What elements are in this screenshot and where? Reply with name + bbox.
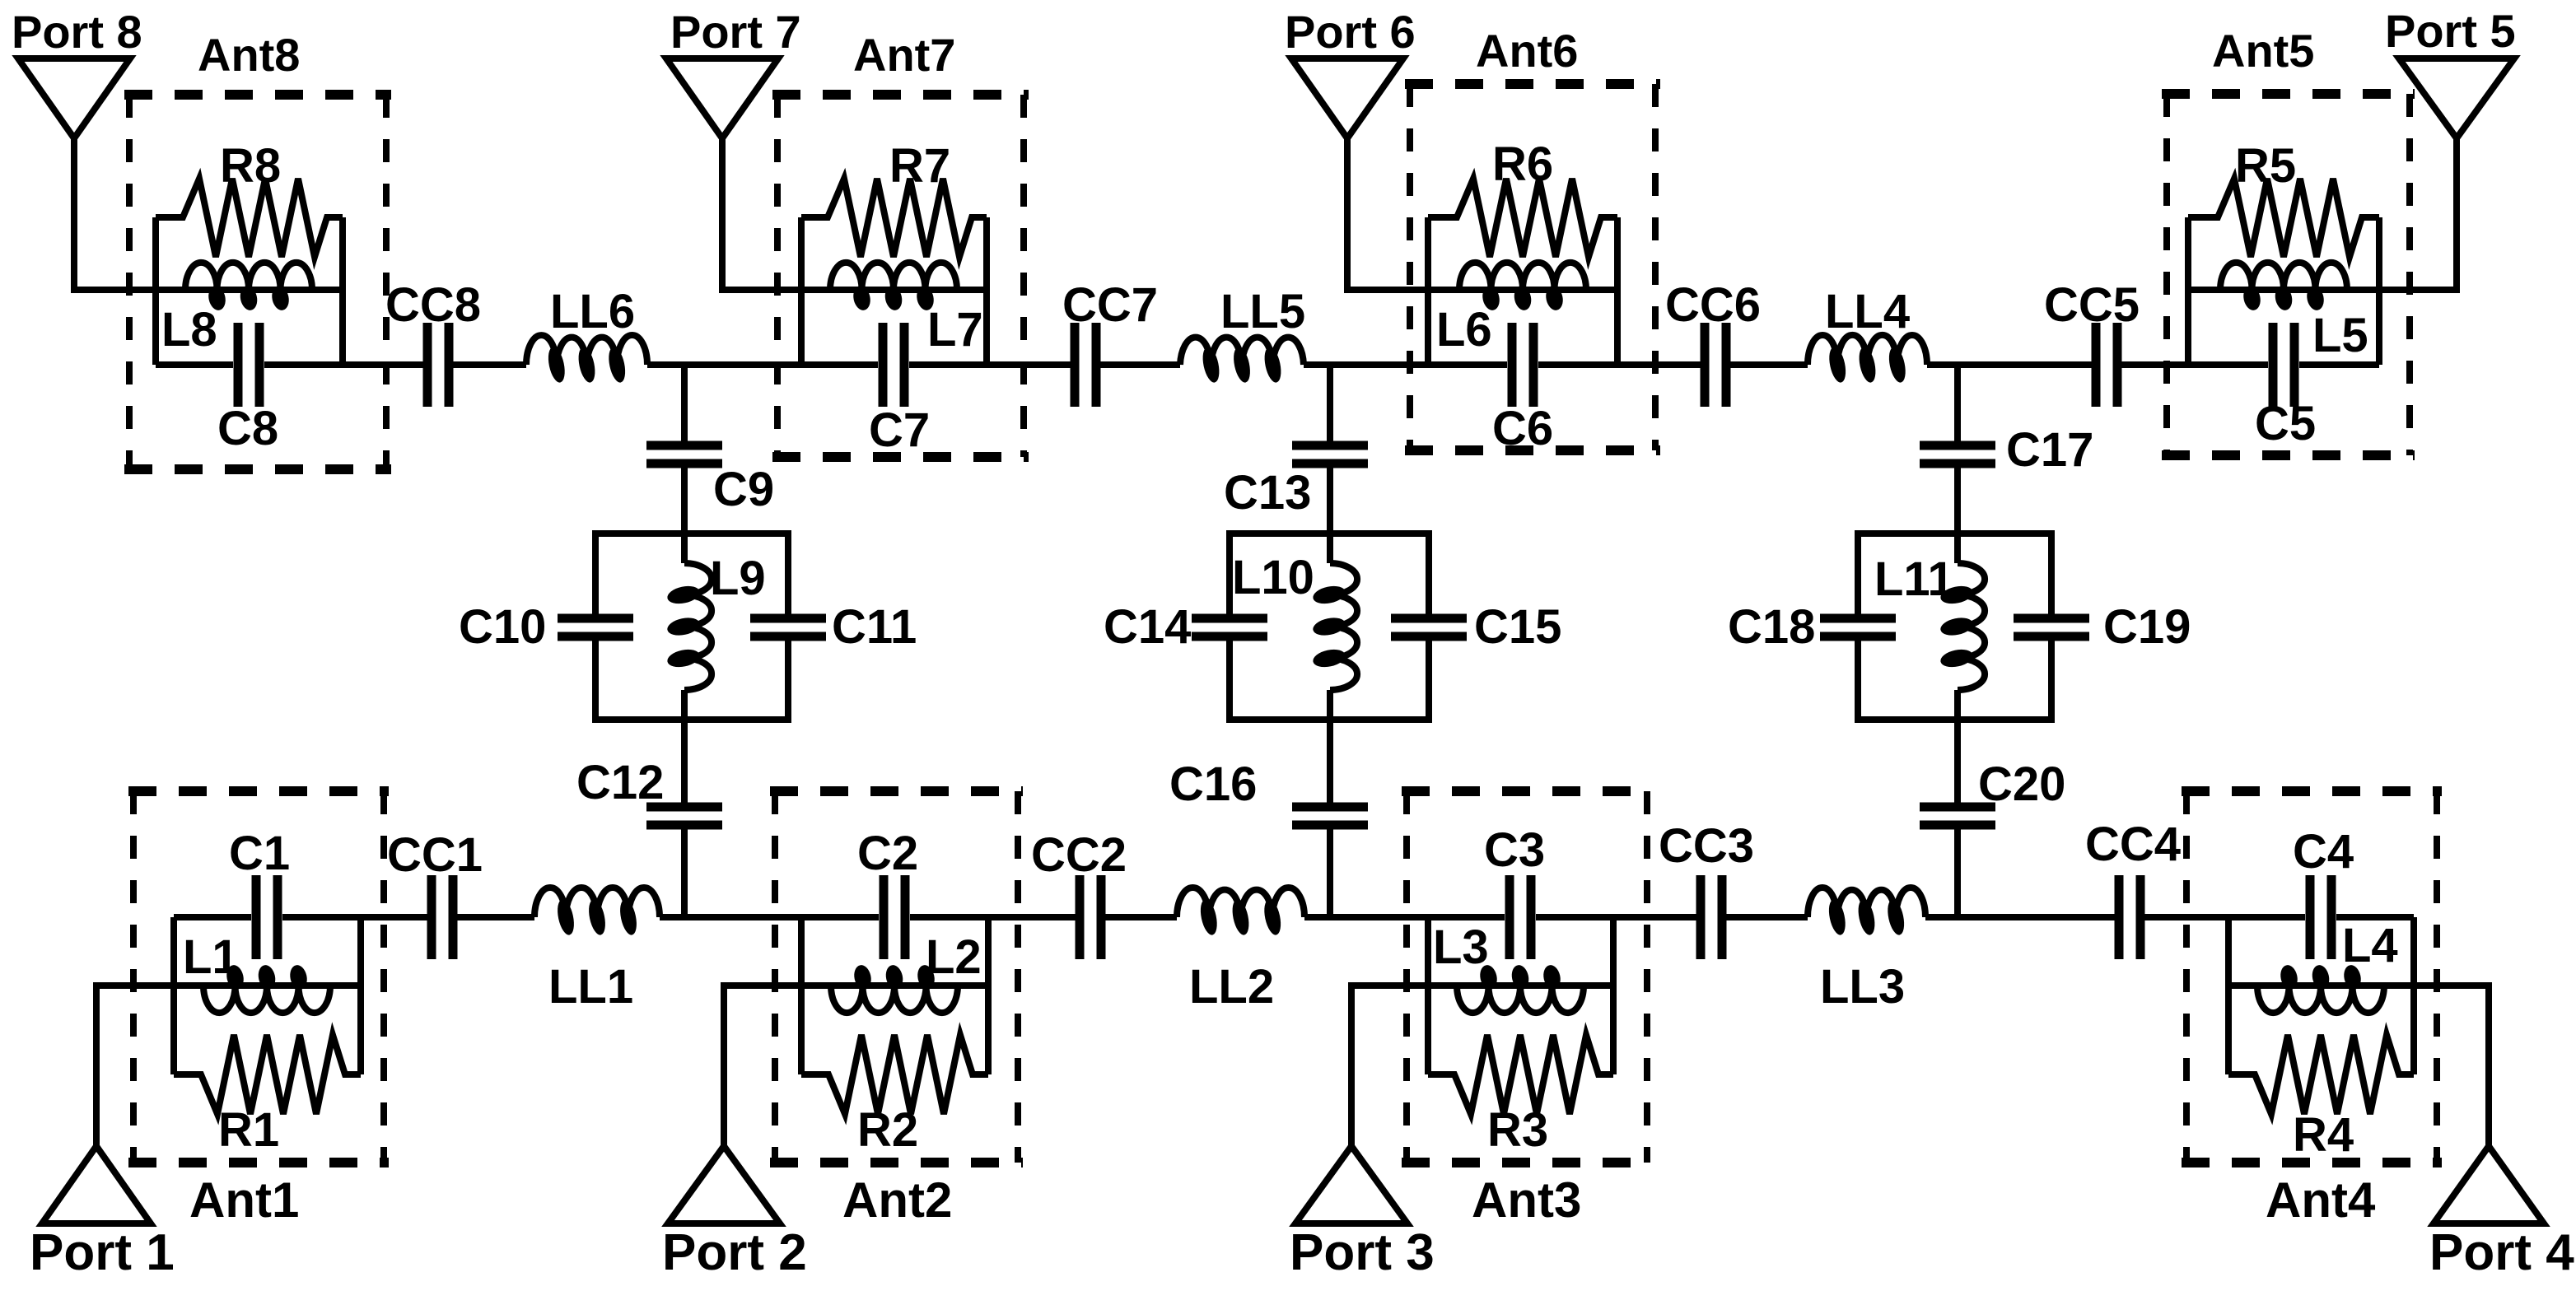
capacitor C9 xyxy=(646,445,722,464)
wire Ant1 top edge left xyxy=(174,914,251,920)
wire Ant4 right rail xyxy=(2410,917,2417,1074)
inductor LL4 xyxy=(1808,335,1927,384)
wire Ant8 left rail xyxy=(152,217,159,365)
svg-text:C3: C3 xyxy=(1484,823,1545,877)
capacitor CC3 xyxy=(1701,875,1722,959)
wire CC7 to LL5 xyxy=(1096,361,1180,368)
inductor L8 xyxy=(156,263,343,312)
wire Ant6 bottom edge left xyxy=(1428,361,1507,368)
wire CC1 to LL1 xyxy=(453,914,534,920)
capacitor C6 xyxy=(1512,323,1533,407)
wire Ant3 left rail xyxy=(1425,917,1431,1074)
svg-text:L11: L11 xyxy=(1874,552,1954,606)
capacitor C8 xyxy=(238,323,259,407)
wire tank right edge upper (C11) xyxy=(785,534,791,614)
wire Port 6 to Ant6 xyxy=(1347,135,1428,290)
wire tank right edge lower (C15) xyxy=(1426,641,1432,720)
resistor R6 xyxy=(1428,179,1617,257)
wire Ant1 right rail xyxy=(357,917,364,1074)
svg-text:C20: C20 xyxy=(1978,757,2065,811)
svg-text:R2: R2 xyxy=(857,1103,918,1157)
svg-text:LL3: LL3 xyxy=(1820,960,1905,1014)
dashed box Ant2 xyxy=(770,791,1023,1163)
wire tank right edge upper (C15) xyxy=(1426,534,1432,614)
dashed box Ant7 xyxy=(772,95,1029,457)
svg-text:C5: C5 xyxy=(2255,397,2316,450)
svg-text:Ant1: Ant1 xyxy=(189,1172,299,1228)
wire Ant4 left rail xyxy=(2225,917,2232,1074)
wire C20 to bottom bus xyxy=(1954,829,1961,917)
capacitor CC1 xyxy=(432,875,453,959)
svg-text:C15: C15 xyxy=(1474,600,1561,654)
svg-text:C4: C4 xyxy=(2293,825,2354,879)
wire tank bottom edge (L10) xyxy=(1226,716,1432,723)
wire C12 to bottom bus xyxy=(681,829,688,917)
resistor R2 xyxy=(801,1035,988,1114)
svg-text:L7: L7 xyxy=(927,303,983,357)
svg-text:L6: L6 xyxy=(1436,303,1492,357)
svg-text:Port 8: Port 8 xyxy=(12,6,142,58)
wire Port 2 to Ant2 xyxy=(724,986,801,1149)
wire C9 to tank xyxy=(681,468,688,534)
wire LL4 to CC5 via node C xyxy=(1927,361,2096,368)
wire tank top lead to L11 xyxy=(1954,534,1961,563)
wire Ant7 bottom edge left xyxy=(801,361,878,368)
capacitor CC5 xyxy=(2096,323,2117,407)
resistor R5 xyxy=(2188,179,2379,257)
dashed box Ant6 xyxy=(1405,84,1660,450)
svg-text:L10: L10 xyxy=(1232,551,1314,604)
wire C17 to tank xyxy=(1954,468,1961,534)
inductor L9 xyxy=(665,563,712,690)
antenna symbol Port 3 xyxy=(1295,1146,1407,1223)
wire CC3 to LL3 xyxy=(1722,914,1808,920)
svg-text:Ant5: Ant5 xyxy=(2212,25,2314,77)
wire Ant2 to CC2 xyxy=(988,914,1080,920)
svg-text:CC2: CC2 xyxy=(1031,828,1127,882)
wire Ant8 to CC8 xyxy=(343,361,427,368)
wire C13 to tank xyxy=(1327,468,1333,534)
wire Ant8 bottom edge left xyxy=(156,361,233,368)
svg-text:CC4: CC4 xyxy=(2085,818,2181,871)
wire C16 to bottom bus xyxy=(1327,829,1333,917)
wire Ant2 right rail xyxy=(985,917,992,1074)
svg-text:R8: R8 xyxy=(220,139,281,193)
wire tank right edge lower (C19) xyxy=(2048,641,2055,720)
svg-text:R7: R7 xyxy=(889,139,950,193)
wire tank to C16 xyxy=(1327,720,1333,803)
svg-text:C16: C16 xyxy=(1169,757,1257,811)
svg-text:C13: C13 xyxy=(1224,466,1311,520)
dashed box Ant3 xyxy=(1402,791,1652,1163)
wire Ant8 right rail xyxy=(339,217,346,365)
svg-text:C8: C8 xyxy=(217,402,278,455)
capacitor C18 xyxy=(1820,618,1896,636)
svg-text:LL2: LL2 xyxy=(1189,960,1274,1014)
wire LL2 to Ant3 via node E xyxy=(1304,914,1428,920)
inductor LL1 xyxy=(534,888,660,936)
svg-text:Port 2: Port 2 xyxy=(662,1224,807,1281)
capacitor C10 xyxy=(558,618,633,636)
dashed box Ant8 xyxy=(124,95,391,469)
inductor LL6 xyxy=(526,335,647,384)
svg-text:Port 4: Port 4 xyxy=(2429,1224,2574,1281)
svg-text:C6: C6 xyxy=(1492,402,1553,455)
wire CC2 to LL2 xyxy=(1101,914,1177,920)
svg-text:C12: C12 xyxy=(576,756,664,809)
svg-text:LL1: LL1 xyxy=(548,960,633,1014)
capacitor CC4 xyxy=(2119,875,2140,959)
wire Ant6 to CC6 xyxy=(1617,361,1705,368)
wire Ant5 bottom edge left xyxy=(2188,361,2268,368)
wire Ant7 left rail xyxy=(798,217,805,365)
wire LL1 to Ant2 via node D xyxy=(660,914,801,920)
resistor R1 xyxy=(174,1035,361,1114)
capacitor C16 xyxy=(1292,807,1368,825)
capacitor C7 xyxy=(883,323,904,407)
svg-text:C1: C1 xyxy=(229,827,290,880)
svg-text:R5: R5 xyxy=(2235,139,2296,193)
wire Port 3 to Ant3 xyxy=(1351,986,1428,1149)
svg-text:C17: C17 xyxy=(2006,423,2093,477)
capacitor C15 xyxy=(1391,618,1467,636)
wire tank right edge lower (C11) xyxy=(785,641,791,720)
wire CC8 to LL6 xyxy=(449,361,526,368)
svg-text:LL5: LL5 xyxy=(1220,285,1305,338)
svg-text:CC6: CC6 xyxy=(1665,278,1761,332)
wire Ant2 top edge right xyxy=(910,914,988,920)
svg-text:Ant4: Ant4 xyxy=(2266,1172,2376,1228)
wire tank left edge lower (C14) xyxy=(1226,641,1233,720)
wire Ant3 to CC3 xyxy=(1613,914,1701,920)
svg-text:L4: L4 xyxy=(2342,919,2398,972)
inductor L7 xyxy=(801,263,987,312)
wire Ant4 top edge right xyxy=(2336,914,2414,920)
svg-text:C7: C7 xyxy=(869,403,930,457)
svg-text:Ant8: Ant8 xyxy=(198,29,300,81)
svg-text:CC7: CC7 xyxy=(1062,278,1158,332)
svg-text:Port 6: Port 6 xyxy=(1285,6,1416,58)
svg-text:CC5: CC5 xyxy=(2044,278,2140,332)
capacitor C4 xyxy=(2310,875,2331,959)
svg-text:Ant2: Ant2 xyxy=(842,1172,952,1228)
wire Ant6 right rail xyxy=(1614,217,1621,365)
svg-text:R3: R3 xyxy=(1487,1103,1548,1157)
wire Ant1 top edge right xyxy=(282,914,361,920)
antenna symbol Port 4 xyxy=(2434,1146,2544,1223)
svg-text:C2: C2 xyxy=(857,827,918,880)
svg-text:Port 3: Port 3 xyxy=(1290,1224,1435,1281)
wire tank right edge upper (C19) xyxy=(2048,534,2055,614)
dashed box Ant4 xyxy=(2182,791,2442,1163)
wire Port 7 to Ant7 xyxy=(722,135,801,290)
wire Ant7 to CC7 xyxy=(987,361,1075,368)
capacitor C20 xyxy=(1920,807,1995,825)
inductor L4 xyxy=(2228,963,2414,1013)
dashed box Ant1 xyxy=(128,791,389,1163)
svg-text:C18: C18 xyxy=(1728,600,1815,654)
wire tank top lead to L9 xyxy=(681,534,688,563)
wire Ant5 bottom edge right xyxy=(2299,361,2379,368)
wire Port 5 to Ant5 xyxy=(2379,135,2457,290)
capacitor C11 xyxy=(750,618,826,636)
svg-text:L9: L9 xyxy=(710,552,766,605)
resistor R4 xyxy=(2228,1035,2414,1114)
inductor L2 xyxy=(801,963,988,1013)
capacitor CC7 xyxy=(1075,323,1096,407)
capacitor C13 xyxy=(1292,445,1368,464)
wire LL5 to Ant6 via node B xyxy=(1304,361,1428,368)
wire tank left edge upper (C14) xyxy=(1226,534,1233,614)
svg-text:L3: L3 xyxy=(1433,920,1489,974)
inductor LL5 xyxy=(1180,338,1304,385)
inductor L6 xyxy=(1428,263,1617,312)
wire LL6 to Ant7 via node A xyxy=(647,361,801,368)
antenna symbol Port 7 xyxy=(666,58,778,138)
wire L9 to tank bottom xyxy=(681,690,688,720)
svg-text:L5: L5 xyxy=(2312,309,2368,362)
wire tank top lead to L10 xyxy=(1327,534,1333,563)
capacitor C1 xyxy=(256,875,278,959)
wire tank left edge lower (C10) xyxy=(592,641,599,720)
inductor L5 xyxy=(2188,263,2379,312)
wire tank left edge upper (C10) xyxy=(592,534,599,614)
wire tank to C12 xyxy=(681,720,688,803)
wire Ant1 left rail xyxy=(170,917,177,1074)
svg-text:C14: C14 xyxy=(1104,600,1191,654)
wire L11 to tank bottom xyxy=(1954,690,1961,720)
svg-text:Port 1: Port 1 xyxy=(30,1224,175,1281)
wire CC4 to Ant4 xyxy=(2140,914,2228,920)
wire tank top edge (L11) xyxy=(1855,530,2055,537)
wire LL3 to CC4 via node F xyxy=(1925,914,2119,920)
svg-text:LL4: LL4 xyxy=(1825,285,1910,338)
antenna symbol Port 6 xyxy=(1291,58,1403,138)
resistor R7 xyxy=(801,179,987,257)
wire Ant6 bottom edge right xyxy=(1538,361,1617,368)
wire Ant3 top edge right xyxy=(1536,914,1613,920)
wire node to C9 xyxy=(681,365,688,441)
svg-text:Port 5: Port 5 xyxy=(2385,5,2516,57)
svg-text:R4: R4 xyxy=(2293,1108,2354,1162)
capacitor C5 xyxy=(2273,323,2294,407)
wire Ant5 left rail xyxy=(2185,217,2191,365)
wire CC5 to Ant5 xyxy=(2117,361,2188,368)
inductor LL3 xyxy=(1808,888,1925,936)
capacitor C14 xyxy=(1192,618,1267,636)
wire tank top edge (L9) xyxy=(592,530,791,537)
wire CC6 to LL4 xyxy=(1726,361,1808,368)
wire tank left edge lower (C18) xyxy=(1855,641,1861,720)
svg-text:LL6: LL6 xyxy=(550,285,635,338)
wire Port 4 to Ant4 xyxy=(2414,986,2489,1149)
wire Ant7 bottom edge right xyxy=(909,361,987,368)
wire tank left edge upper (C18) xyxy=(1855,534,1861,614)
svg-text:Ant7: Ant7 xyxy=(853,29,955,81)
wire Ant2 left rail xyxy=(798,917,805,1074)
inductor L10 xyxy=(1311,563,1357,690)
wire Ant6 left rail xyxy=(1425,217,1431,365)
svg-text:C11: C11 xyxy=(832,600,917,654)
capacitor C19 xyxy=(2014,618,2089,636)
resistor R3 xyxy=(1428,1035,1613,1114)
svg-text:CC3: CC3 xyxy=(1659,819,1754,873)
capacitor C12 xyxy=(646,807,722,825)
wire Ant7 right rail xyxy=(983,217,990,365)
antenna symbol Port 1 xyxy=(42,1146,151,1223)
wire tank to C20 xyxy=(1954,720,1961,803)
wire Ant8 bottom edge right xyxy=(264,361,343,368)
wire Ant2 top edge left xyxy=(801,914,879,920)
capacitor C2 xyxy=(884,875,905,959)
inductor L11 xyxy=(1939,563,1985,690)
svg-text:L8: L8 xyxy=(161,303,217,357)
wire tank bottom edge (L11) xyxy=(1855,716,2055,723)
svg-text:R6: R6 xyxy=(1492,137,1553,191)
wire L10 to tank bottom xyxy=(1327,690,1333,720)
svg-text:C10: C10 xyxy=(459,600,546,654)
capacitor CC6 xyxy=(1705,323,1726,407)
svg-text:C9: C9 xyxy=(713,463,774,516)
wire node to C13 xyxy=(1327,365,1333,441)
svg-text:R1: R1 xyxy=(218,1103,279,1157)
wire Ant4 top edge left xyxy=(2228,914,2305,920)
inductor L1 xyxy=(174,963,361,1013)
wire Ant3 top edge left xyxy=(1428,914,1505,920)
svg-text:L2: L2 xyxy=(926,930,982,984)
capacitor CC8 xyxy=(427,323,449,407)
resistor R8 xyxy=(156,179,343,257)
inductor LL2 xyxy=(1177,888,1304,936)
svg-text:Port 7: Port 7 xyxy=(670,6,801,58)
svg-text:Ant3: Ant3 xyxy=(1472,1172,1581,1228)
svg-text:C19: C19 xyxy=(2103,600,2191,654)
capacitor C3 xyxy=(1510,875,1531,959)
capacitor C17 xyxy=(1920,445,1995,464)
wire Ant3 right rail xyxy=(1610,917,1617,1074)
wire Ant1 to CC1 xyxy=(361,914,432,920)
svg-text:CC8: CC8 xyxy=(385,278,481,332)
svg-text:Ant6: Ant6 xyxy=(1476,25,1578,77)
wire tank top edge (L10) xyxy=(1226,530,1432,537)
wire tank bottom edge (L9) xyxy=(592,716,791,723)
wire Port 1 to Ant1 xyxy=(96,986,174,1149)
svg-text:L1: L1 xyxy=(183,930,239,984)
antenna symbol Port 8 xyxy=(18,58,130,138)
inductor L3 xyxy=(1428,963,1613,1013)
wire Port 8 to Ant8 xyxy=(74,135,156,290)
wire node to C17 xyxy=(1954,365,1961,441)
antenna symbol Port 5 xyxy=(2399,58,2514,138)
antenna symbol Port 2 xyxy=(668,1146,780,1223)
svg-text:CC1: CC1 xyxy=(387,828,483,882)
wire Ant5 right rail xyxy=(2376,217,2382,365)
capacitor CC2 xyxy=(1080,875,1101,959)
dashed box Ant5 xyxy=(2162,94,2415,455)
